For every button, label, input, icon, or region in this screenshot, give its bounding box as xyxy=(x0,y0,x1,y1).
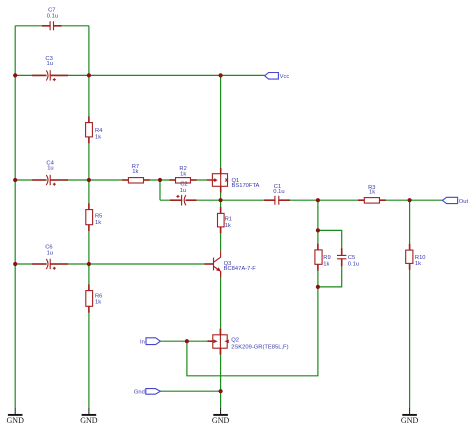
wire Q1 drain vertical from Vcc row xyxy=(220,75,222,169)
junction node R9 top / C5 xyxy=(316,228,320,232)
wire R9 branch vertical x=318 xyxy=(317,200,319,287)
svg-text:C2: C2 xyxy=(180,181,187,187)
svg-text:C5: C5 xyxy=(348,255,355,261)
flag In xyxy=(140,338,160,346)
resistor R5 1k xyxy=(86,203,103,231)
svg-text:1k: 1k xyxy=(132,169,138,175)
svg-text:R5: R5 xyxy=(95,214,102,220)
capacitor C4 1u polarized xyxy=(32,161,68,186)
svg-text:0.1u: 0.1u xyxy=(273,189,284,195)
flag Out xyxy=(442,197,468,205)
svg-text:1k: 1k xyxy=(180,171,186,177)
resistor R3 1k xyxy=(358,185,386,203)
svg-text:Out: Out xyxy=(459,199,469,205)
svg-text:GND: GND xyxy=(212,416,230,425)
svg-text:BC847A-7-F: BC847A-7-F xyxy=(224,266,257,272)
svg-text:Vcc: Vcc xyxy=(280,74,290,80)
svg-text:1k: 1k xyxy=(95,220,101,226)
ground GND 4 right xyxy=(401,408,419,425)
svg-text:2SK209-GR(TE85L,F): 2SK209-GR(TE85L,F) xyxy=(231,344,288,350)
resistor R4 1k xyxy=(86,116,104,143)
wire Out branch vertical x=410 down through R10 to GND xyxy=(409,200,411,407)
capacitor C6 1u polarized xyxy=(32,245,68,270)
wire C5 branch loop xyxy=(318,230,342,287)
wire Q2 source down to GND xyxy=(220,348,222,407)
wire Vcc row y=75 from left rail to Vcc flag xyxy=(15,74,264,76)
junction node C3 left rail xyxy=(13,73,17,77)
junction node R7/R2/C2 xyxy=(158,178,162,182)
svg-text:1u: 1u xyxy=(180,188,186,194)
junction node In / feedback xyxy=(185,339,189,343)
ground GND 2 rail2 xyxy=(80,408,98,425)
wire row D y=200 C2/C1/R3 to Out flag xyxy=(160,199,442,201)
wire row E y=264 C6 to Q3 base xyxy=(15,263,204,265)
resistor R6 1k xyxy=(86,284,103,312)
junction node C3 right / rail2 xyxy=(87,73,91,77)
wire Q1 source to row D xyxy=(220,187,222,200)
svg-text:1k: 1k xyxy=(369,190,375,196)
capacitor C1 0.1u xyxy=(264,184,290,205)
transistor Q3 BC847A-7-F npn xyxy=(205,251,257,277)
junction node R9 bottom / C5 / feedback xyxy=(316,285,320,289)
junction node C1 / R9 xyxy=(316,198,320,202)
capacitor C7 0.1u xyxy=(42,8,62,31)
wire left vertical rail x=15 xyxy=(14,26,16,408)
wire second vertical rail x=89 xyxy=(88,26,90,408)
resistor R9 1k xyxy=(315,244,331,271)
svg-text:In: In xyxy=(140,340,145,346)
ground GND 1 left rail xyxy=(7,408,25,425)
svg-text:1k: 1k xyxy=(95,135,101,141)
capacitor C2 1u polarized xyxy=(170,181,197,205)
wire top rail from left rail to x=89 xyxy=(15,25,89,27)
wire feedback from R9 bottom down left and up to In row xyxy=(187,287,318,376)
svg-text:1k: 1k xyxy=(323,261,329,267)
svg-text:1u: 1u xyxy=(47,61,53,67)
svg-text:R6: R6 xyxy=(95,293,102,299)
svg-text:GND: GND xyxy=(80,416,98,425)
svg-text:R4: R4 xyxy=(95,128,103,134)
capacitor C3 1u polarized xyxy=(32,56,68,81)
resistor R7 1k xyxy=(122,164,150,183)
svg-text:BS170FTA: BS170FTA xyxy=(232,183,260,189)
flag Gnd xyxy=(134,389,160,396)
junction node C6 right / rail2 xyxy=(87,262,91,266)
svg-text:1u: 1u xyxy=(47,251,53,257)
svg-text:1k: 1k xyxy=(415,261,421,267)
ground GND 3 center xyxy=(212,408,230,425)
transistor Q2 2SK209 jfet xyxy=(208,329,289,355)
junction node C4 right / rail2 xyxy=(87,178,91,182)
wire Q3 emitter down to Q2 drain xyxy=(220,271,222,334)
wire row C y=180 C4/R7/R2 to Q1 gate xyxy=(15,179,207,181)
wire Gnd row y=391 from Gnd flag to Q2 source rail xyxy=(160,390,220,392)
svg-text:0.1u: 0.1u xyxy=(348,262,359,268)
wire R1 branch from row D down to Q3 collector xyxy=(220,200,222,250)
resistor R10 1k xyxy=(406,244,426,270)
svg-text:0.1u: 0.1u xyxy=(47,14,58,20)
resistor R1 1k xyxy=(218,207,233,233)
transistor Q1 BS170FTA n-mosfet xyxy=(207,168,260,193)
junction node C6 left rail xyxy=(13,262,17,266)
junction node Gnd / Q2 source xyxy=(219,389,223,393)
svg-text:GND: GND xyxy=(401,416,419,425)
svg-text:1k: 1k xyxy=(225,223,231,229)
capacitor C5 0.1u xyxy=(337,248,359,267)
resistor R2 1k xyxy=(169,166,196,183)
svg-text:1u: 1u xyxy=(47,166,53,172)
junction node C4 left rail xyxy=(13,178,17,182)
svg-text:Q2: Q2 xyxy=(231,337,239,343)
svg-text:Gnd: Gnd xyxy=(134,390,145,396)
wire vertical x=160 from row C down to C2 row xyxy=(159,180,161,200)
junction node R3 / R10 / Out xyxy=(408,198,412,202)
svg-text:GND: GND xyxy=(7,416,25,425)
svg-text:R1: R1 xyxy=(225,217,232,223)
junction node Vcc / Q1 drain xyxy=(219,73,223,77)
svg-text:R10: R10 xyxy=(415,255,426,261)
svg-text:R9: R9 xyxy=(323,255,330,261)
flag Vcc xyxy=(265,73,290,81)
wire In row y=341 from In flag to Q2 gate xyxy=(160,340,207,342)
svg-text:1k: 1k xyxy=(95,300,101,306)
junction node Q1 source / R1 / C2 xyxy=(219,198,223,202)
